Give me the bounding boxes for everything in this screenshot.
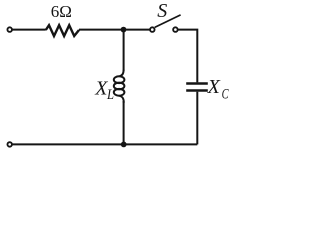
svg-text:L: L [106,87,114,103]
inductor XL coil loop 2 [114,83,125,90]
node B junction dot [121,142,127,148]
bottom wire [12,143,197,145]
terminal bottom-left [7,142,12,147]
wire switch to top-right corner [178,30,198,83]
inductor XL coil loop 3 [114,89,125,96]
inductor XL coil lead-in [119,70,123,77]
switch S right contact [173,27,178,32]
inductor XL coil loop 1 [114,76,125,83]
wire resistor to node A [79,29,124,31]
resistor R 6ohm [46,25,79,36]
switch S lever [155,15,181,28]
svg-text:S: S [157,0,167,22]
wire node A down to inductor [123,30,125,71]
wire capacitor to bottom wire [196,92,198,145]
svg-text:X: X [207,76,221,98]
terminal top-left [7,27,12,32]
svg-text:6Ω: 6Ω [51,2,72,21]
wire top-left to resistor [12,29,45,31]
wire node A to switch [124,29,150,31]
inductor XL coil lead-out [119,96,124,103]
wire inductor to node B [123,101,125,144]
capacitor XC bottom plate [186,89,208,92]
switch S left contact [150,27,155,32]
capacitor XC top plate [186,82,208,85]
svg-text:C: C [222,86,230,102]
node A junction dot [121,27,127,33]
